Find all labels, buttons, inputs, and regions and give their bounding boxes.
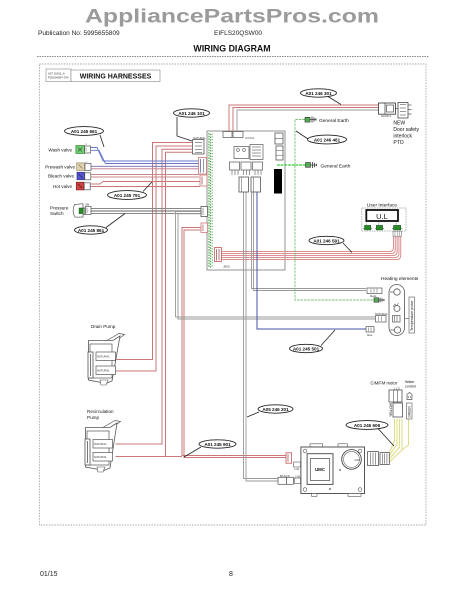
svg-text:NATURAL: NATURAL — [94, 442, 107, 446]
svg-text:J500: J500 — [223, 265, 230, 269]
svg-text:A01 246 461: A01 246 461 — [314, 137, 341, 142]
svg-text:UMC: UMC — [315, 467, 326, 472]
svg-text:PTO: PTO — [393, 140, 403, 146]
svg-text:Drain Pump: Drain Pump — [91, 324, 116, 329]
svg-text:Water: Water — [405, 380, 415, 384]
svg-text:blue: blue — [367, 333, 373, 337]
svg-text:A01 245 661: A01 245 661 — [71, 129, 98, 134]
svg-text:WIRING DIAGRAM: WIRING DIAGRAM — [193, 44, 270, 54]
svg-text:GREEN: GREEN — [408, 405, 412, 417]
svg-text:User Interface: User Interface — [367, 203, 397, 209]
svg-text:A05 246 201: A05 246 201 — [262, 407, 289, 412]
svg-text:Wash valve: Wash valve — [48, 148, 72, 153]
svg-text:control: control — [405, 385, 416, 389]
svg-text:P20S0409Y-T04: P20S0409Y-T04 — [48, 76, 69, 80]
svg-text:Pressure: Pressure — [50, 206, 69, 211]
svg-text:U.L: U.L — [376, 212, 388, 221]
svg-text:AppliancePartsPros.com: AppliancePartsPros.com — [85, 6, 379, 28]
svg-text:A01 246 591: A01 246 591 — [313, 238, 340, 243]
svg-text:01/15: 01/15 — [40, 571, 58, 578]
svg-text:General Earth: General Earth — [319, 118, 349, 124]
svg-text:interlock: interlock — [393, 134, 412, 140]
svg-text:WIRING HARNESSES: WIRING HARNESSES — [80, 74, 152, 81]
svg-text:DOOR S: DOOR S — [381, 114, 392, 118]
svg-text:NATURAL: NATURAL — [97, 369, 110, 373]
svg-text:NATURAL: NATURAL — [94, 455, 107, 459]
svg-text:Heating elements: Heating elements — [381, 276, 419, 282]
svg-text:General Earth: General Earth — [321, 163, 351, 169]
svg-text:A01 245 901: A01 245 901 — [204, 442, 231, 447]
svg-text:5M: 5M — [86, 203, 90, 207]
svg-text:NEW: NEW — [393, 121, 405, 127]
svg-text:Prewash valve: Prewash valve — [45, 165, 75, 170]
svg-text:NATURAL: NATURAL — [97, 355, 110, 359]
svg-text:8: 8 — [229, 571, 233, 578]
svg-text:A01 245 501: A01 245 501 — [293, 346, 320, 351]
svg-text:A01 245 791: A01 245 791 — [114, 193, 141, 198]
svg-text:Publication No: 5995655809: Publication No: 5995655809 — [38, 30, 120, 37]
svg-text:A01 246 606: A01 246 606 — [354, 423, 381, 428]
svg-text:EIFLS20QSW00: EIFLS20QSW00 — [214, 30, 262, 37]
svg-text:CIM/FM motor: CIM/FM motor — [371, 381, 398, 386]
svg-text:Switch: Switch — [50, 211, 64, 216]
svg-text:Pump: Pump — [87, 415, 99, 420]
svg-text:A01 245 861: A01 245 861 — [78, 228, 105, 233]
svg-text:YELLOW: YELLOW — [389, 402, 393, 417]
svg-text:Hot valve: Hot valve — [53, 184, 73, 189]
svg-text:A01 246 301: A01 246 301 — [305, 91, 332, 96]
svg-text:Door safety: Door safety — [393, 127, 419, 133]
svg-text:Recirculation: Recirculation — [87, 409, 114, 414]
svg-text:Bleach valve: Bleach valve — [48, 174, 74, 179]
svg-text:Temperature probe: Temperature probe — [410, 301, 414, 331]
svg-text:black: black — [370, 294, 377, 298]
svg-text:J-40: J-40 — [294, 467, 300, 471]
svg-text:A01 246 101: A01 246 101 — [178, 111, 205, 116]
svg-text:LK150A: LK150A — [245, 136, 255, 140]
svg-text:J-09: J-09 — [354, 458, 360, 462]
